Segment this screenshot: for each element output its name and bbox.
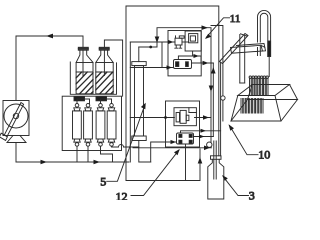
U-tube drip line	[268, 57, 270, 77]
bottom bus wire	[16, 161, 113, 163]
arrow right to bottle	[204, 146, 210, 151]
arrow up on that wire	[198, 157, 203, 164]
tall column bottom flange	[132, 136, 146, 141]
svg-text:11: 11	[230, 13, 241, 25]
U-tube	[258, 10, 271, 56]
wire into actuator left	[130, 117, 174, 119]
top right stub wire	[211, 26, 223, 96]
upper sub-box innermost	[190, 36, 195, 41]
bottle 1 neck	[76, 50, 80, 62]
top loop wire	[157, 28, 211, 118]
arrow right on output	[203, 61, 209, 66]
label 5 leader	[107, 105, 145, 182]
arrow right small	[194, 54, 200, 58]
valve bottom column 2	[85, 139, 91, 146]
arrow on it	[201, 129, 207, 133]
U-tube right leg absorbent fill	[268, 41, 271, 57]
pump stand	[7, 136, 26, 143]
svg-text:12: 12	[116, 190, 128, 201]
valve L2	[177, 133, 194, 144]
tall column body	[135, 66, 144, 136]
wire into valve U1	[130, 41, 175, 43]
wire valve L2 left port	[151, 142, 177, 162]
valve bottom column 1	[74, 139, 80, 146]
wire below fitting	[222, 100, 224, 121]
bottles tray	[70, 62, 116, 94]
pump box	[3, 101, 29, 136]
arrow right on bus 2	[94, 160, 101, 165]
arrow up on second drop	[211, 67, 216, 74]
arrow right actuator output	[203, 115, 209, 120]
small fitting circle above bottle	[207, 142, 212, 147]
tray corner edges	[231, 85, 298, 122]
wire column bottom to valve port	[139, 148, 151, 162]
valve top column 4	[108, 104, 114, 111]
wire valve U2 top loop	[178, 56, 201, 63]
wire valve U1 to sub-box	[182, 41, 189, 43]
top bridge pair 1	[77, 99, 90, 104]
tray 3D outer	[231, 100, 298, 122]
label 12 leader	[131, 150, 179, 195]
drop continuation to fitting	[210, 118, 212, 143]
arrow right on bus 1	[41, 160, 48, 165]
actuator right wedge	[186, 115, 189, 120]
junction dot left	[164, 116, 167, 119]
valve U1	[175, 36, 184, 48]
wire column top to riser	[139, 46, 157, 48]
column 2	[84, 111, 93, 139]
wire to bottle (horizontal)	[133, 147, 212, 149]
left riser between inlet wires	[161, 42, 163, 68]
bottle 2 liquid surface	[96, 71, 113, 73]
bottle 2 neck	[96, 50, 101, 62]
actuator corner notch	[189, 108, 197, 113]
arrow on U1 inlet	[168, 40, 174, 44]
wire valve U2 out right	[192, 62, 214, 64]
column 4	[107, 111, 116, 139]
upper valve box	[168, 31, 201, 76]
upper sub-box	[185, 31, 201, 51]
valve top column 3	[97, 104, 103, 111]
wire column 3 bottom routed right	[101, 146, 113, 162]
small circle fitting	[221, 96, 225, 100]
wire bottle 2 to right	[104, 40, 122, 96]
bottle 1 body	[76, 63, 93, 94]
bottle 2 body	[96, 63, 113, 94]
wire actuator out right	[195, 117, 212, 119]
valve U2	[174, 60, 192, 69]
pump vane foot	[0, 133, 7, 140]
comb tubes upper row	[249, 76, 268, 96]
inner long vertical wire	[129, 42, 131, 162]
tall column bottom stem	[138, 141, 140, 148]
bottle 2 cap	[99, 47, 109, 50]
bottle 3 cap	[211, 156, 222, 160]
wire valve L2 out right lower	[194, 136, 214, 138]
tall column top flange	[132, 62, 146, 66]
big box bottom wire	[126, 180, 200, 182]
valve bottom column 3	[97, 139, 103, 146]
arrow right on that wire	[167, 65, 173, 69]
valve top column 1	[74, 104, 80, 111]
actuator left block	[176, 113, 179, 122]
bus stub to diagonal	[113, 161, 130, 163]
column 1	[73, 111, 82, 139]
svg-text:5: 5	[100, 175, 106, 189]
second drop wire	[212, 63, 214, 137]
valve bottom column 4	[108, 139, 114, 146]
bottle 1 cap	[78, 47, 88, 50]
pump hub circle	[13, 113, 18, 118]
bottle 1 liquid hatch	[76, 72, 93, 94]
U-tube left leg below arm	[258, 47, 261, 56]
stand arm	[231, 44, 266, 54]
svg-text:3: 3	[249, 189, 255, 201]
wire column 4 bottom with hop over box edge	[112, 145, 139, 148]
wire column 1 bottom to bus	[76, 146, 78, 162]
actuator sub-box	[174, 108, 196, 126]
tall column top stem	[138, 47, 140, 62]
arrow down on riser	[155, 37, 160, 44]
pump vane	[4, 103, 23, 137]
comb tubes submerged row	[241, 99, 263, 114]
wire from bottle 1 to pump (top-left loop)	[16, 36, 83, 100]
big box outline	[126, 6, 219, 181]
tube down to bottle 3	[220, 63, 222, 156]
wire into valve U2 bottom left	[130, 67, 173, 69]
arrow left on top wire	[46, 34, 53, 39]
bottle 3 neck and body	[208, 159, 224, 199]
label 10 leader	[230, 126, 259, 155]
label 3 leader	[223, 177, 248, 196]
label 11 leader	[206, 18, 229, 38]
upper sub-box inner	[189, 34, 198, 43]
plank top face	[241, 34, 248, 36]
column 3	[96, 111, 105, 139]
stand plank brace	[220, 34, 249, 64]
bottle 1 liquid surface	[76, 71, 93, 73]
arrow on it	[199, 135, 205, 139]
svg-text:10: 10	[258, 148, 270, 162]
wire column 2 bottom to bus	[87, 146, 89, 162]
wire sub-box down	[192, 51, 194, 56]
wire pump to bottom bus	[15, 143, 17, 163]
bottle 2 dip tube	[103, 50, 105, 75]
wire valve L2 bottom stem down	[185, 144, 187, 181]
lower valve box	[166, 101, 200, 147]
arrow into L2 left port	[171, 140, 177, 144]
arrow right on top loop	[202, 25, 209, 30]
bottle 3 inner tube	[214, 141, 216, 179]
top bridge pair 2	[101, 99, 112, 104]
wire valve L2 top loop out right	[181, 131, 221, 133]
actuator piston	[180, 110, 186, 123]
junction dot	[149, 46, 152, 49]
columns box	[62, 96, 121, 150]
arrow down on right drop	[209, 86, 214, 93]
pump rotor circle	[4, 104, 28, 128]
heater block right	[96, 97, 107, 101]
heater block left	[74, 97, 85, 101]
wire up from bottom to lower valve unit	[199, 149, 201, 181]
stand post	[240, 35, 245, 84]
bottle 2 liquid hatch	[96, 72, 113, 94]
tray 3D rim	[238, 85, 290, 96]
valve top column 2	[85, 104, 91, 111]
